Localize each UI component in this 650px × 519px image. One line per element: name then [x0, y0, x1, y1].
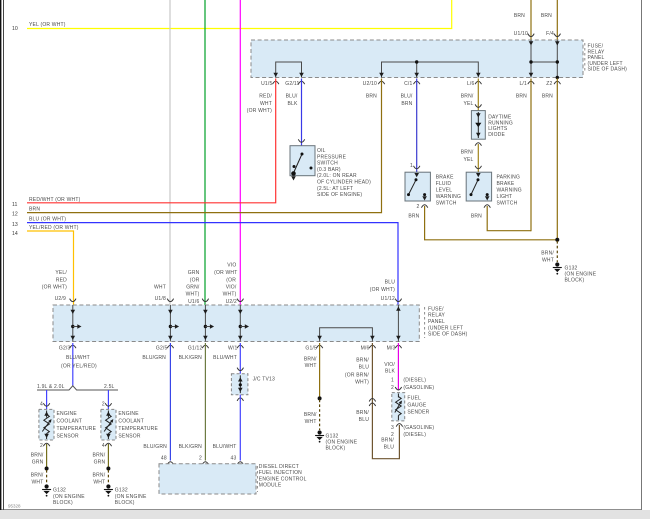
svg-text:1.9L & 2.0L: 1.9L & 2.0L: [37, 384, 65, 390]
ground G132 (on engine block) top right: [553, 262, 597, 283]
wire BLU/WHT W/1 to J/C TV13: [213, 343, 240, 374]
svg-text:PANEL: PANEL: [428, 319, 445, 325]
svg-text:G2/3: G2/3: [59, 346, 71, 352]
svg-text:C/1: C/1: [404, 81, 412, 87]
svg-text:U2/9: U2/9: [55, 296, 66, 302]
svg-text:OF CYLINDER HEAD): OF CYLINDER HEAD): [317, 180, 371, 186]
svg-text:BLU/WHT: BLU/WHT: [213, 355, 237, 361]
terminal L/6: [467, 81, 482, 87]
svg-text:1: 1: [410, 163, 413, 169]
terminal G1/12: [188, 345, 209, 351]
svg-text:ENGINE: ENGINE: [57, 411, 78, 417]
terminal U2/10: [363, 81, 385, 87]
svg-text:BRAKE: BRAKE: [497, 181, 515, 187]
svg-text:FUEL INJECTION: FUEL INJECTION: [259, 470, 302, 476]
terminal G2/11: [285, 81, 304, 87]
svg-text:F/4: F/4: [546, 31, 554, 37]
wire 11 RED/WHT (OR WHT): [12, 79, 276, 209]
wire GRN vertical: [204, 0, 206, 305]
svg-text:G132: G132: [115, 488, 128, 494]
svg-text:43: 43: [231, 456, 237, 462]
svg-text:(OR WHT): (OR WHT): [42, 285, 67, 291]
svg-text:WHT: WHT: [260, 101, 272, 107]
svg-text:(OR WHT: (OR WHT: [214, 270, 237, 276]
terminal G2/3: [59, 345, 76, 351]
terminal W/1: [228, 345, 244, 351]
wire BRN to U1/10: [514, 0, 531, 40]
svg-text:RELAY: RELAY: [428, 313, 445, 319]
svg-text:YEL (OR WHT): YEL (OR WHT): [29, 22, 66, 28]
terminal U2/2: [214, 263, 243, 305]
svg-text:(GASOLINE): (GASOLINE): [403, 385, 434, 391]
svg-text:M/6: M/6: [361, 346, 370, 352]
wire BLU/WHT J/C TV13 to ECM pin 43: [213, 395, 241, 462]
svg-text:13: 13: [12, 222, 18, 228]
svg-text:2: 2: [199, 456, 202, 462]
wire WHT vertical: [169, 0, 171, 305]
panel2 internal net G1/5 M/6: [317, 328, 374, 342]
svg-text:1: 1: [391, 377, 394, 383]
svg-text:BLOCK): BLOCK): [53, 500, 73, 506]
svg-text:11: 11: [12, 202, 17, 208]
svg-text:10: 10: [12, 26, 18, 32]
svg-text:BLU: BLU: [384, 444, 395, 450]
svg-text:BLK/GRN: BLK/GRN: [179, 444, 203, 450]
svg-text:BLK: BLK: [287, 101, 298, 107]
svg-text:BRN: BRN: [29, 207, 40, 213]
wire VIO/BLK M/3 to fuel gauge sender: [384, 343, 434, 391]
svg-text:ENGINE: ENGINE: [118, 411, 139, 417]
svg-text:BLOCK): BLOCK): [565, 277, 585, 283]
terminal U1/5: [261, 81, 279, 87]
svg-text:BLU: BLU: [385, 280, 396, 286]
svg-text:GRN: GRN: [94, 459, 106, 465]
svg-text:BRN/: BRN/: [356, 410, 369, 416]
ECM terminal chevrons: [167, 462, 243, 465]
svg-text:FUSE/: FUSE/: [428, 306, 444, 312]
svg-text:BLU/GRN: BLU/GRN: [143, 444, 167, 450]
node sensor2 ground junction: [106, 467, 110, 471]
svg-text:BRN: BRN: [514, 13, 525, 19]
svg-text:(OR WHT): (OR WHT): [247, 108, 272, 114]
svg-text:2: 2: [102, 402, 105, 408]
svg-text:WHT: WHT: [305, 419, 317, 425]
svg-text:BLK/GRN: BLK/GRN: [179, 355, 203, 361]
wire BLU/GRN G2/5 to ECM pin 48: [142, 343, 170, 462]
svg-text:SWITCH: SWITCH: [497, 201, 518, 207]
wire BRN/WHT dashed sensor2: [93, 470, 109, 485]
wire BLU/WHT branch 1: [40, 390, 47, 409]
svg-text:14: 14: [12, 231, 18, 237]
svg-text:G2/11: G2/11: [285, 81, 299, 87]
svg-text:RED/: RED/: [259, 94, 272, 100]
svg-text:(OR BRN/: (OR BRN/: [345, 373, 370, 379]
svg-text:WARNING: WARNING: [497, 188, 522, 194]
terminal L/1: [519, 81, 534, 87]
svg-text:TEMPERATURE: TEMPERATURE: [118, 426, 158, 432]
panel1 internal net U1/5 to G2/11: [273, 62, 303, 78]
engine coolant temperature sensor 2: [101, 403, 159, 449]
oil pressure switch: [290, 139, 371, 198]
svg-text:2.5L: 2.5L: [104, 384, 115, 390]
svg-text:(GASOLINE): (GASOLINE): [403, 425, 434, 431]
svg-text:BLK: BLK: [385, 369, 396, 375]
svg-text:W/1: W/1: [228, 346, 238, 352]
svg-text:TEMPERATURE: TEMPERATURE: [57, 426, 97, 432]
svg-text:WHT): WHT): [223, 292, 237, 298]
svg-text:G1/12: G1/12: [188, 346, 203, 352]
svg-text:WHT): WHT): [186, 292, 200, 298]
svg-text:YEL/: YEL/: [55, 270, 67, 276]
svg-text:U2/2: U2/2: [226, 299, 237, 305]
svg-text:(UNDER LEFT: (UNDER LEFT: [428, 325, 463, 331]
svg-text:L/1: L/1: [519, 81, 527, 87]
svg-text:U1/12: U1/12: [381, 296, 395, 302]
node G1/5 ground junction: [318, 396, 322, 400]
wire BRN to F/4: [541, 0, 557, 40]
svg-text:BLU (OR WHT): BLU (OR WHT): [29, 217, 66, 223]
diesel direct fuel injection engine control module: [159, 464, 307, 494]
svg-text:BRN/: BRN/: [461, 94, 474, 100]
terminal Z2: [546, 81, 560, 87]
svg-text:BRN/: BRN/: [31, 473, 44, 479]
svg-text:ENGINE CONTROL: ENGINE CONTROL: [259, 476, 307, 482]
svg-text:BRN: BRN: [542, 94, 553, 100]
terminal C/1: [404, 81, 420, 87]
svg-text:YEL/RED (OR WHT): YEL/RED (OR WHT): [29, 225, 79, 231]
svg-text:VIO: VIO: [227, 263, 236, 269]
svg-text:RED/WHT (OR WHT): RED/WHT (OR WHT): [29, 197, 81, 203]
svg-text:WHT: WHT: [542, 257, 554, 263]
svg-text:GRN/: GRN/: [186, 285, 200, 291]
svg-text:COOLANT: COOLANT: [118, 419, 144, 425]
wire 10 YEL (OR WHT): [12, 0, 452, 32]
svg-text:BRN: BRN: [471, 214, 482, 220]
panel2 internal U1/6-G1/12: [203, 305, 214, 342]
terminal U1/6: [186, 270, 209, 305]
svg-text:BRN/: BRN/: [93, 473, 106, 479]
svg-text:GRN: GRN: [188, 270, 200, 276]
terminal M/6: [361, 345, 376, 351]
svg-text:BRN/: BRN/: [93, 453, 106, 459]
svg-text:FUEL: FUEL: [407, 396, 421, 402]
svg-text:SENDER: SENDER: [407, 410, 429, 416]
svg-text:WHT: WHT: [32, 479, 44, 485]
svg-text:VIO/: VIO/: [226, 285, 237, 291]
svg-text:U1/5: U1/5: [261, 81, 272, 87]
svg-text:U1/6: U1/6: [188, 299, 199, 305]
ground G132 sensor2: [104, 484, 147, 506]
wire BLU/WHT branch 2: [102, 390, 109, 409]
svg-text:U1/8: U1/8: [155, 296, 166, 302]
wire BRN/GRN sensor2: [93, 444, 109, 469]
parking brake warning light switch: [466, 166, 522, 208]
svg-text:(2.5L: AT LEFT: (2.5L: AT LEFT: [317, 186, 353, 192]
svg-text:BRN/: BRN/: [304, 356, 317, 362]
svg-text:(ON ENGINE: (ON ENGINE: [53, 494, 85, 500]
svg-text:SWITCH: SWITCH: [436, 201, 457, 207]
svg-text:4: 4: [102, 443, 105, 449]
svg-text:WARNING: WARNING: [436, 194, 461, 200]
svg-text:95328: 95328: [8, 504, 21, 509]
svg-text:BRN/: BRN/: [381, 438, 394, 444]
svg-text:BLU/WHT: BLU/WHT: [213, 444, 237, 450]
svg-text:PRESSURE: PRESSURE: [317, 154, 347, 160]
svg-text:SWITCH: SWITCH: [317, 161, 338, 167]
svg-text:2: 2: [40, 443, 43, 449]
svg-text:BLU/: BLU/: [286, 94, 298, 100]
wire VIO vertical: [239, 0, 241, 305]
svg-text:DIESEL DIRECT: DIESEL DIRECT: [259, 464, 299, 470]
svg-text:GRN: GRN: [32, 459, 44, 465]
svg-text:4: 4: [40, 402, 43, 408]
svg-text:SENSOR: SENSOR: [57, 434, 80, 440]
svg-text:BRN: BRN: [541, 13, 552, 19]
panel2 internal U1/8-G2/5: [168, 305, 179, 342]
svg-text:BRN: BRN: [366, 94, 377, 100]
svg-text:U2/10: U2/10: [363, 81, 377, 87]
svg-text:2: 2: [391, 385, 394, 391]
svg-text:BRN/: BRN/: [31, 453, 44, 459]
wire BRN Z2 down: [542, 79, 557, 240]
terminal G2/5: [156, 345, 174, 351]
wire BRN/WHT dashed G1/5: [304, 400, 320, 430]
svg-text:2: 2: [391, 432, 394, 438]
svg-text:BLU: BLU: [359, 417, 370, 423]
wire 13 BLU (OR WHT): [12, 217, 398, 305]
svg-text:BRN: BRN: [408, 214, 419, 220]
wire BRN/WHT G1/5 down: [304, 343, 320, 398]
svg-text:(OR YEL/RED): (OR YEL/RED): [61, 364, 97, 370]
wire BLK/GRN G1/12 to ECM pin 2: [179, 343, 206, 462]
svg-text:WHT: WHT: [305, 363, 317, 369]
node sensor1 ground junction: [45, 467, 49, 471]
svg-text:COOLANT: COOLANT: [57, 419, 83, 425]
svg-text:BRN/: BRN/: [356, 358, 369, 364]
svg-text:FLUID: FLUID: [436, 181, 452, 187]
wire BRN/YEL diode to parking brake switch: [461, 144, 479, 172]
svg-text:BRN/: BRN/: [304, 412, 317, 418]
svg-text:BRN: BRN: [516, 94, 527, 100]
terminal M/3: [387, 345, 402, 351]
svg-text:(OR: (OR: [226, 277, 236, 283]
svg-text:G1/5: G1/5: [305, 346, 317, 352]
terminal U1/12: [395, 299, 401, 302]
node Z2 ground junction: [555, 238, 559, 242]
svg-text:LIGHT: LIGHT: [497, 194, 513, 200]
svg-text:J/C TV13: J/C TV13: [253, 377, 275, 383]
svg-text:L/6: L/6: [467, 81, 475, 87]
svg-text:2: 2: [417, 204, 420, 210]
terminal U1/8: [154, 285, 174, 302]
panel1 internal net U1/10 F/4 L/1 Z2: [528, 34, 561, 80]
svg-text:WHT: WHT: [154, 285, 166, 291]
svg-text:WHT): WHT): [355, 379, 369, 385]
svg-text:RED: RED: [56, 277, 67, 283]
daytime running lights diode: [471, 104, 513, 145]
wire BRN/BLU M/6 to fuel gauge sender: [345, 343, 400, 459]
engine coolant temperature sensor 1: [39, 403, 97, 449]
svg-text:SIDE OF ENGINE): SIDE OF ENGINE): [317, 192, 362, 198]
panel2 internal U2/2-W/1: [238, 305, 249, 342]
svg-text:DIODE: DIODE: [488, 132, 505, 138]
wire BRN parking brake switch to L/1: [471, 206, 531, 231]
wire BRN L/1 down: [516, 79, 531, 232]
svg-text:BRAKE: BRAKE: [436, 175, 454, 181]
wire BLU/BRN C/1 to brake fluid switch: [401, 79, 417, 173]
svg-text:SIDE OF DASH): SIDE OF DASH): [428, 332, 468, 338]
svg-text:M/3: M/3: [387, 346, 396, 352]
panel2 internal U2/9-G2/3: [71, 305, 82, 342]
wire 12 BRN: [12, 79, 382, 218]
svg-text:BRN: BRN: [401, 101, 412, 107]
svg-text:BLOCK): BLOCK): [326, 445, 346, 451]
svg-text:BLU/WHT: BLU/WHT: [66, 355, 90, 361]
svg-text:Z2: Z2: [546, 81, 552, 87]
fuse/relay panel 1 (under left side of dash): [251, 40, 627, 78]
svg-text:WHT: WHT: [93, 479, 105, 485]
terminal U2/9: [70, 299, 76, 302]
wire BRN brake fluid switch to Z2 node: [408, 206, 556, 240]
svg-text:U1/10: U1/10: [514, 31, 528, 37]
svg-text:(0.3 BAR): (0.3 BAR): [317, 167, 341, 173]
svg-text:G2/5: G2/5: [156, 346, 168, 352]
panel2 internal U1/12-M/3: [396, 305, 401, 342]
svg-text:48: 48: [161, 456, 167, 462]
wire BRN/WHT dashed to G132: [541, 241, 557, 263]
svg-text:SIDE OF DASH): SIDE OF DASH): [588, 67, 628, 73]
svg-text:(2.0L: ON REAR: (2.0L: ON REAR: [317, 173, 357, 179]
svg-text:(ON ENGINE: (ON ENGINE: [115, 494, 147, 500]
svg-text:YEL: YEL: [463, 101, 473, 107]
wire BLU/BLK G2/11 to oil pressure switch: [286, 79, 302, 146]
svg-text:VIO/: VIO/: [384, 362, 395, 368]
svg-text:G132: G132: [53, 488, 66, 494]
ground G132 sensor1: [42, 484, 85, 506]
engine split bracket 1.9L & 2.0L / 2.5L: [37, 384, 118, 390]
svg-text:BLU/GRN: BLU/GRN: [142, 355, 166, 361]
svg-text:PARKING: PARKING: [497, 175, 521, 181]
svg-text:MODULE: MODULE: [259, 483, 282, 489]
wire BRN/YEL L/6 to diode: [461, 79, 479, 111]
svg-text:OIL: OIL: [317, 148, 326, 154]
svg-text:BLOCK): BLOCK): [115, 500, 135, 506]
svg-text:(OR WHT): (OR WHT): [370, 287, 395, 293]
svg-text:(DIESEL): (DIESEL): [403, 377, 426, 383]
wire BRN/WHT dashed sensor1: [31, 470, 47, 485]
ground G132 mid: [315, 430, 358, 451]
svg-text:GAUGE: GAUGE: [407, 403, 427, 409]
fuse/relay panel 2 (under left side of dash): [53, 305, 468, 342]
wire 14 YEL/RED (OR WHT): [12, 225, 79, 305]
svg-text:BLU/: BLU/: [401, 94, 413, 100]
junction connector J/C TV13: [231, 368, 275, 401]
svg-text:LEVEL: LEVEL: [436, 188, 453, 194]
svg-text:3: 3: [391, 425, 394, 431]
svg-text:BLU: BLU: [359, 364, 370, 370]
panel1 internal net U2/10 C/1 L/6: [379, 60, 480, 77]
svg-text:BRN/: BRN/: [461, 150, 474, 156]
wire BRN/GRN sensor1: [31, 444, 47, 469]
fuel gauge sender: [391, 387, 434, 438]
svg-text:(DIESEL): (DIESEL): [403, 432, 426, 438]
svg-text:12: 12: [12, 212, 18, 218]
terminal G1/5: [305, 345, 322, 351]
svg-text:SENSOR: SENSOR: [118, 434, 141, 440]
svg-text:BRN/: BRN/: [541, 251, 554, 257]
brake fluid level warning switch: [405, 163, 461, 210]
svg-text:YEL: YEL: [463, 157, 473, 163]
wire BLU/WHT G2/3 down to split: [61, 343, 97, 386]
svg-text:(OR: (OR: [190, 277, 200, 283]
